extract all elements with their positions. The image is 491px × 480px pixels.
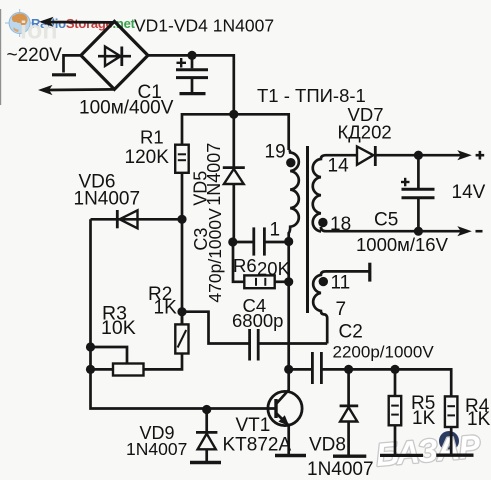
svg-text:R6: R6: [233, 255, 257, 276]
svg-text:VD8: VD8: [309, 435, 346, 456]
svg-text:1K: 1K: [412, 408, 436, 429]
svg-text:18: 18: [330, 214, 351, 235]
svg-text:120K: 120K: [125, 147, 170, 168]
svg-text:VD1-VD4 1N4007: VD1-VD4 1N4007: [134, 16, 274, 36]
svg-text:1N4007: 1N4007: [74, 189, 141, 210]
svg-text:1K: 1K: [154, 298, 178, 319]
svg-text:1N4007: 1N4007: [204, 143, 224, 206]
svg-text:7: 7: [336, 299, 347, 320]
svg-text:1N4007: 1N4007: [307, 459, 374, 480]
svg-text:KT872A: KT872A: [223, 435, 292, 456]
svg-text:~220V: ~220V: [7, 45, 63, 66]
svg-text:6800p: 6800p: [232, 310, 283, 331]
svg-text:1N4007: 1N4007: [126, 439, 187, 459]
svg-text:19: 19: [265, 141, 286, 162]
svg-text:T1 - ТПИ-8-1: T1 - ТПИ-8-1: [257, 85, 366, 106]
svg-text:470p/1000V: 470p/1000V: [205, 208, 225, 303]
svg-text:C2: C2: [339, 322, 363, 343]
svg-text:10K: 10K: [101, 317, 136, 339]
svg-text:1: 1: [270, 220, 281, 241]
svg-text:R1: R1: [140, 126, 164, 147]
svg-text:C5: C5: [374, 210, 398, 231]
svg-text:20K: 20K: [257, 258, 291, 279]
svg-text:1000м/16V: 1000м/16V: [356, 234, 449, 255]
svg-text:100м/400V: 100м/400V: [79, 98, 174, 119]
svg-text:2200p/1000V: 2200p/1000V: [333, 343, 435, 362]
svg-text:11: 11: [331, 273, 351, 294]
svg-text:14V: 14V: [452, 182, 486, 203]
svg-text:КД202: КД202: [338, 121, 392, 142]
svg-text:1K: 1K: [467, 409, 491, 430]
svg-text:14: 14: [328, 155, 350, 176]
svg-text:VT1: VT1: [236, 415, 271, 436]
